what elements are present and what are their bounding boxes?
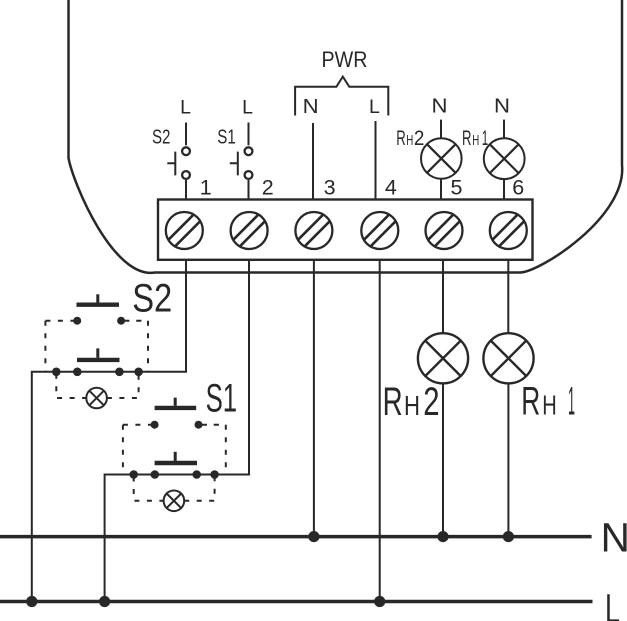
- svg-text:1: 1: [482, 127, 489, 150]
- svg-text:H: H: [406, 132, 413, 149]
- svg-text:1: 1: [568, 379, 575, 423]
- svg-text:N: N: [601, 514, 627, 560]
- svg-text:H: H: [542, 389, 557, 420]
- svg-text:N: N: [303, 96, 319, 118]
- svg-text:6: 6: [512, 175, 524, 199]
- svg-text:H: H: [404, 390, 420, 421]
- svg-text:S2: S2: [152, 127, 171, 149]
- svg-text:N: N: [494, 96, 510, 118]
- svg-text:PWR: PWR: [322, 47, 368, 72]
- svg-text:2: 2: [262, 175, 274, 199]
- svg-text:5: 5: [451, 175, 463, 199]
- svg-text:3: 3: [324, 175, 336, 199]
- svg-text:S1: S1: [206, 376, 238, 420]
- svg-text:2: 2: [423, 380, 439, 424]
- svg-text:R: R: [383, 380, 403, 424]
- svg-text:H: H: [472, 132, 479, 149]
- svg-text:S2: S2: [132, 276, 172, 320]
- svg-text:S1: S1: [217, 127, 236, 149]
- svg-text:R: R: [462, 127, 472, 150]
- svg-text:N: N: [432, 96, 448, 118]
- svg-text:R: R: [521, 379, 540, 423]
- svg-text:2: 2: [414, 127, 425, 150]
- svg-text:1: 1: [200, 175, 212, 199]
- svg-text:L: L: [242, 97, 253, 119]
- svg-text:L: L: [369, 96, 380, 118]
- svg-text:L: L: [180, 97, 191, 119]
- svg-text:R: R: [396, 127, 406, 150]
- svg-text:4: 4: [385, 175, 397, 199]
- svg-text:L: L: [605, 585, 620, 621]
